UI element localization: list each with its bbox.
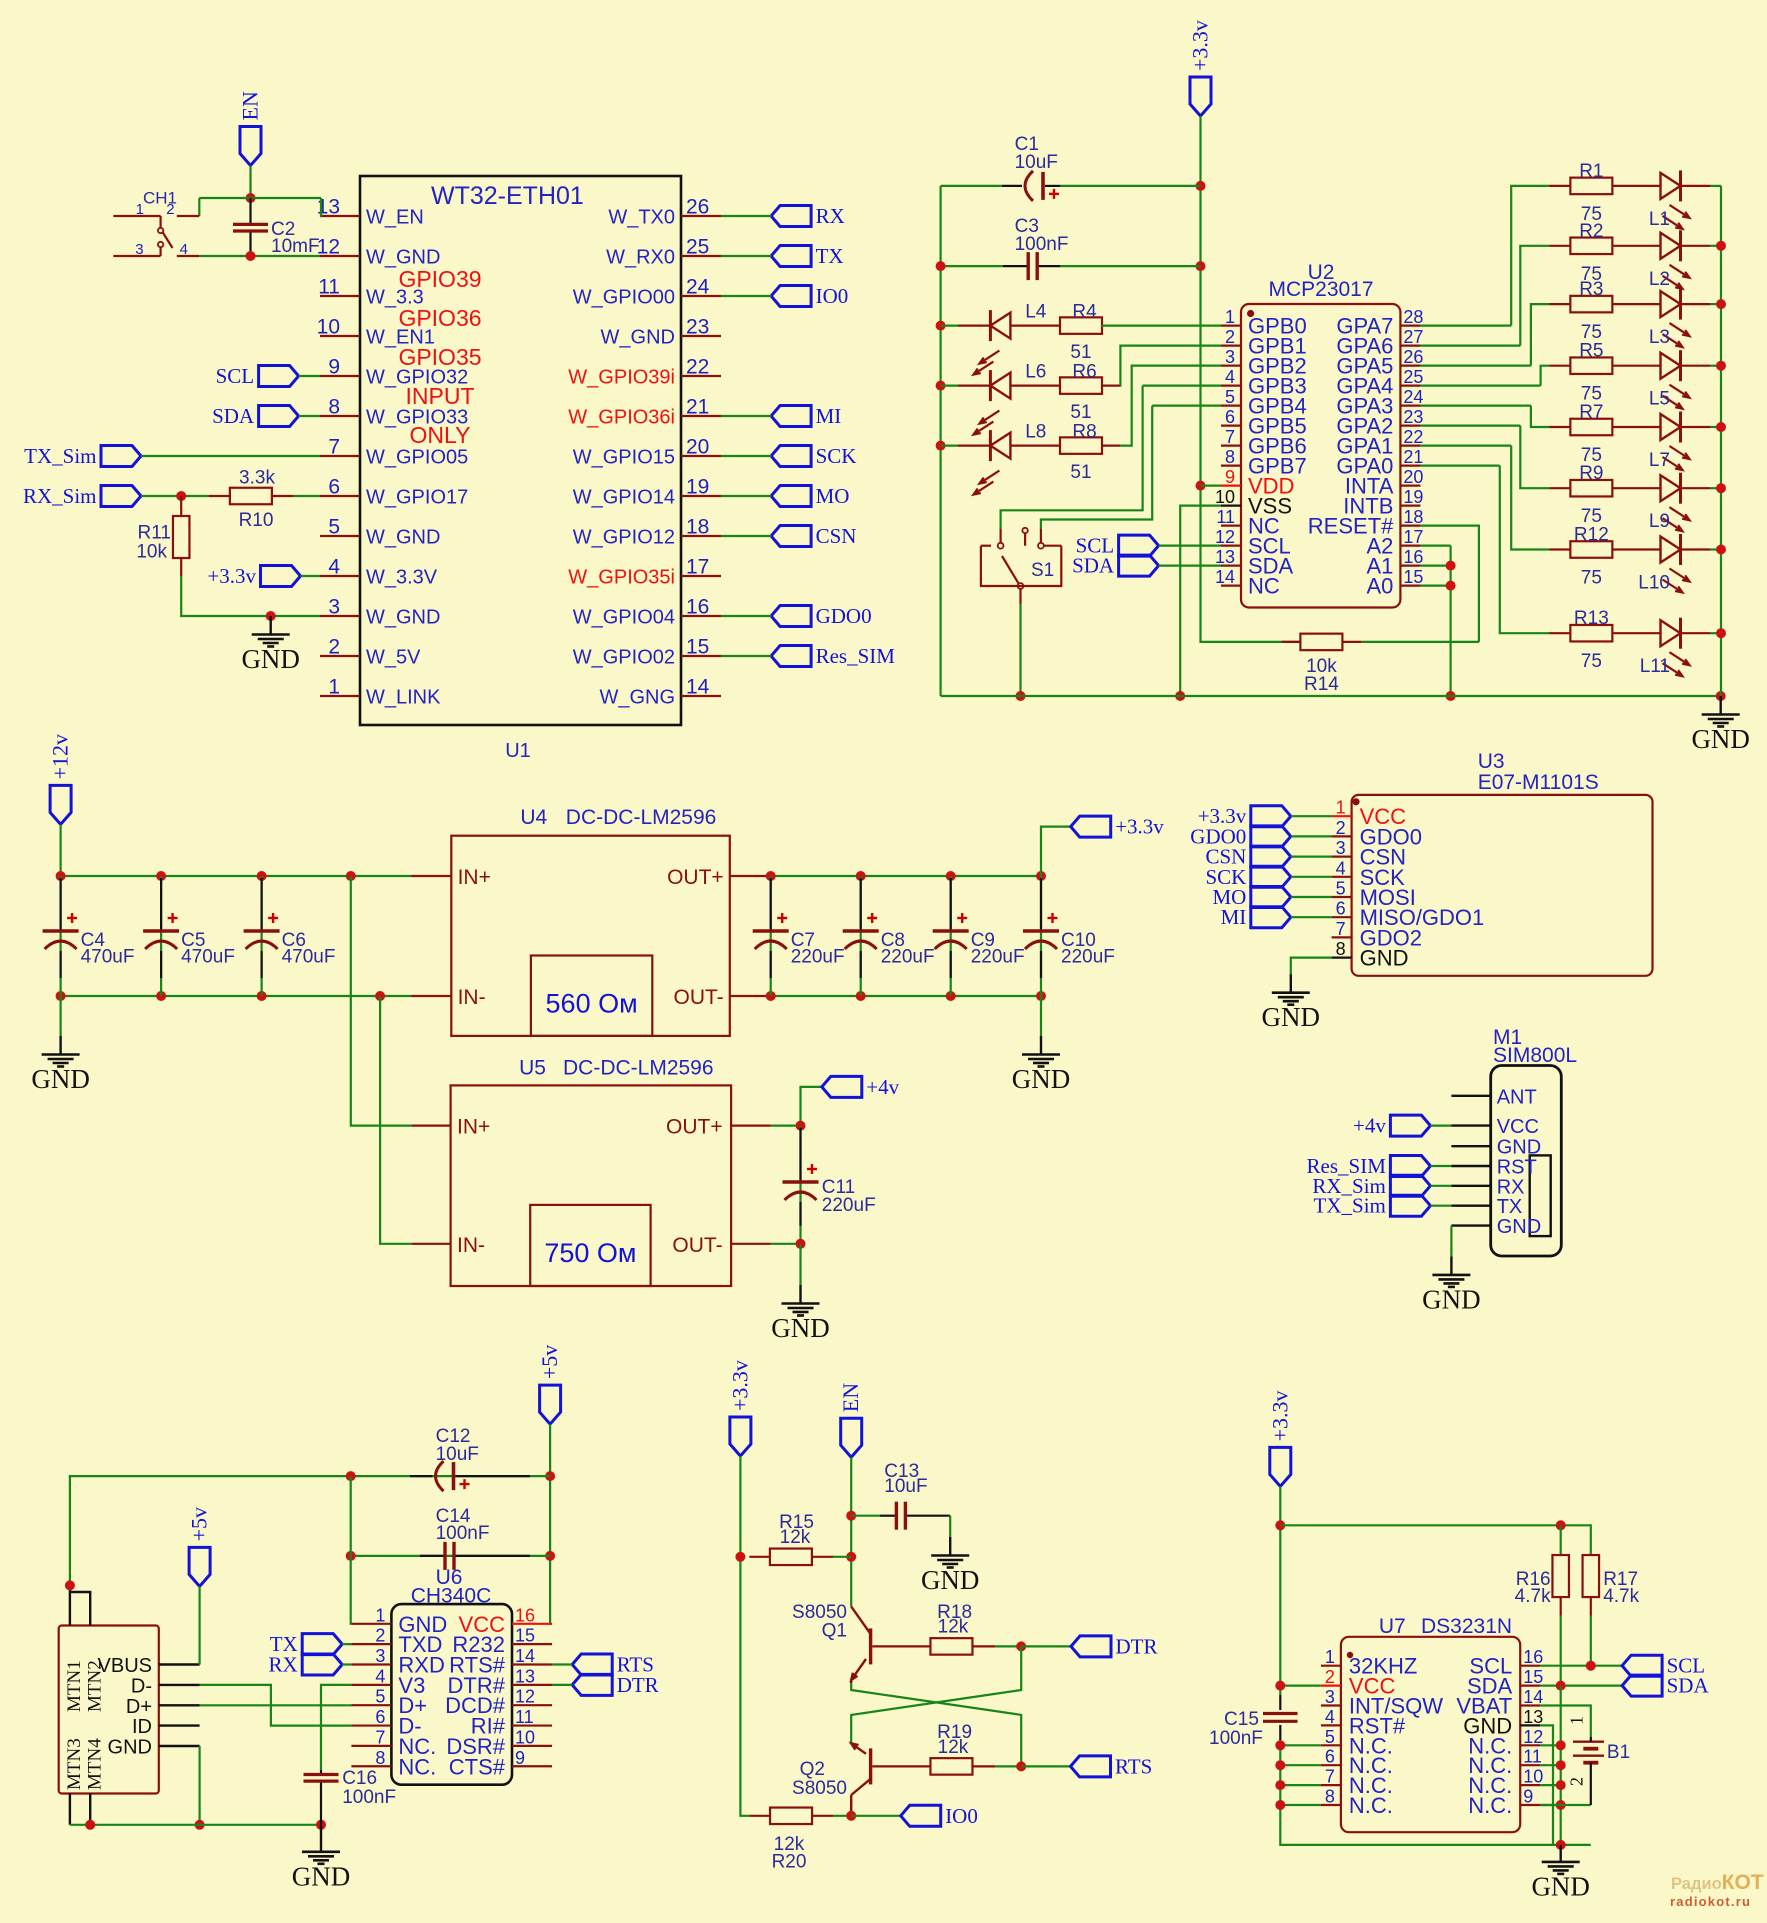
svg-text:9: 9 (1225, 467, 1235, 487)
capacitor C16 100nF (320, 1770, 322, 1774)
svg-text:L2: L2 (1649, 269, 1670, 290)
U1 pin 17 W_GPIO35i (681, 575, 721, 577)
wire right N.C. pin 9 (1540, 1804, 1561, 1806)
node C2 bottom junction (246, 251, 256, 261)
svg-text:7: 7 (375, 1727, 385, 1747)
U4 IN- stub (412, 995, 452, 997)
wire GPA pin to R7 (1420, 405, 1531, 407)
wire VBAT to battery (1540, 1706, 1591, 1738)
wire pin26 to RX (721, 215, 771, 217)
wire VSS to gnd rail (1180, 506, 1221, 696)
flag EN above C2 (240, 127, 261, 166)
wire right N.C. pin 12 (1540, 1744, 1561, 1746)
wire pin19 to MO (721, 495, 771, 497)
wire GPA pin to R2 (1420, 345, 1520, 347)
svg-text:10uF: 10uF (436, 1444, 479, 1465)
wire L1 to gnd rail (1710, 185, 1721, 187)
svg-text:4: 4 (375, 1666, 385, 1686)
svg-text:W_GND: W_GND (601, 327, 675, 349)
wire left gnd rail of LED column (939, 186, 941, 696)
U7 pin 16 SCL (1520, 1665, 1540, 1667)
U7 pin 9 N.C. (1520, 1804, 1540, 1806)
node VDD junction (1196, 481, 1206, 491)
M1 pin ANT (1451, 1095, 1490, 1097)
svg-text:W_GPIO12: W_GPIO12 (573, 527, 675, 549)
svg-text:100nF: 100nF (1209, 1728, 1263, 1749)
svg-text:EN: EN (838, 1383, 863, 1412)
svg-text:OUT+: OUT+ (667, 866, 724, 889)
node right N.C. 11 junction (1556, 1760, 1566, 1770)
U1 pin 26 W_TX0 (681, 215, 721, 217)
wire right N.C. pin 10 (1540, 1784, 1561, 1786)
U1 pin 8 W_GPIO33 (320, 415, 360, 417)
port GDO0 (771, 606, 811, 627)
wire TX to TXD (342, 1643, 351, 1645)
svg-text:7: 7 (328, 436, 340, 459)
flag +5v above C12 (540, 1385, 561, 1424)
wire S1 to gnd rail (1019, 589, 1021, 604)
wire pin16 to GDO0 (721, 615, 771, 617)
wire +3.3v rail down to VDD and R14 (1201, 116, 1301, 642)
wire SCL row to port (1540, 1665, 1622, 1667)
svg-text:17: 17 (686, 556, 709, 579)
U1 pin 22 W_GPIO39i (681, 375, 721, 377)
svg-text:6: 6 (1225, 407, 1235, 427)
capacitor C10 220uF (1040, 876, 1042, 996)
svg-text:10: 10 (1523, 1767, 1543, 1787)
capacitor C12 10uF (410, 1475, 433, 1477)
svg-text:51: 51 (1070, 462, 1091, 483)
svg-text:GND: GND (1262, 1002, 1321, 1032)
svg-text:23: 23 (1403, 407, 1423, 427)
U7 pin 3 INT/SQW (1321, 1704, 1341, 1706)
svg-text:560 Ом: 560 Ом (546, 989, 638, 1019)
svg-text:Res_SIM: Res_SIM (816, 644, 896, 668)
svg-text:GND: GND (241, 644, 300, 674)
svg-text:IN-: IN- (458, 986, 486, 1009)
wire U4 IN- down to U5 IN- (380, 996, 411, 1244)
port RX_Sim at M1 (1390, 1175, 1430, 1196)
U6 pin 16 VCC (512, 1623, 552, 1625)
svg-text:R14: R14 (1304, 674, 1339, 695)
svg-text:OUT+: OUT+ (666, 1116, 723, 1139)
USB pin VBUS (159, 1663, 200, 1665)
USB shell pin MTN1 (69, 1589, 71, 1626)
svg-text:8: 8 (375, 1748, 385, 1768)
svg-text:MTN2: MTN2 (85, 1660, 106, 1712)
svg-text:SCL: SCL (216, 364, 255, 388)
svg-text:IN-: IN- (457, 1234, 485, 1257)
svg-text:75: 75 (1581, 651, 1602, 672)
svg-text:R2: R2 (1579, 221, 1603, 242)
node +5v C12 junction (545, 1471, 555, 1481)
U1 pin 20 W_GPIO15 (681, 455, 721, 457)
node OUT- rail junction (766, 991, 776, 1001)
resistor R1 75 (1549, 185, 1570, 187)
capacitor C4 470uF (59, 876, 61, 996)
ground GND below U5 (799, 1285, 801, 1304)
wire DTR junction to port (1021, 1645, 1071, 1647)
wire pin15 to Res_SIM (721, 655, 771, 657)
node RX_Sim/R10/R11 junction (176, 491, 186, 501)
node IN- rail junction (257, 991, 267, 1001)
svg-text:VCC: VCC (1497, 1116, 1539, 1138)
svg-text:IN+: IN+ (458, 866, 491, 889)
svg-text:11: 11 (515, 1707, 534, 1727)
svg-text:DC-DC-LM2596: DC-DC-LM2596 (566, 806, 717, 829)
svg-text:14: 14 (1523, 1687, 1543, 1707)
node C3 junction right (1196, 261, 1206, 271)
U4 OUT+ stub (730, 875, 770, 877)
svg-text:4: 4 (1325, 1707, 1335, 1727)
U1 pin 5 W_GND (320, 535, 360, 537)
capacitor C8 220uF (860, 876, 862, 996)
svg-text:2: 2 (328, 636, 340, 659)
svg-text:TX: TX (816, 244, 844, 268)
svg-text:+3.3v: +3.3v (207, 564, 256, 588)
U2 pin 1 GPB0 (1221, 325, 1241, 327)
svg-text:L8: L8 (1025, 422, 1046, 443)
svg-text:W_3.3V: W_3.3V (366, 567, 438, 589)
svg-text:W_GNG: W_GNG (599, 687, 675, 709)
svg-text:+12v: +12v (48, 734, 73, 779)
wire L9 to gnd rail (1710, 487, 1721, 489)
wire EN down to Q1 collector (850, 1457, 852, 1606)
node A-pins gnd junction (1446, 691, 1456, 701)
U3 pin 6 MISO/GDO1 (1332, 916, 1352, 918)
regulator module U5 DC-DC-LM2596 body (451, 1085, 731, 1286)
wire +4v to VCC (1430, 1124, 1451, 1126)
svg-text:R12: R12 (1574, 525, 1609, 546)
node C12 left junction (346, 1471, 356, 1481)
U1 pin 1 W_LINK (320, 695, 360, 697)
port SDA at U2 (1119, 555, 1159, 576)
svg-text:RX_Sim: RX_Sim (23, 484, 97, 508)
LED L3 (1612, 303, 1660, 305)
svg-text:L9: L9 (1649, 511, 1670, 532)
resistor R16 4.7k (1560, 1525, 1562, 1555)
node IN- rail junction (56, 991, 66, 1001)
svg-text:TX_Sim: TX_Sim (24, 444, 96, 468)
svg-text:R13: R13 (1574, 608, 1609, 629)
flag +3.3v above U2 (1190, 77, 1211, 116)
U2 pin 24 GPA3 (1400, 405, 1420, 407)
wire GND pin 13 down to rail (1540, 1725, 1553, 1845)
node IN+ rail junction (56, 871, 66, 881)
svg-text:OUT-: OUT- (672, 1234, 722, 1257)
svg-text:MO: MO (816, 484, 850, 508)
USB pin D+ (159, 1704, 200, 1706)
node gnd rail right junction (1716, 691, 1726, 701)
wire R10 to pin6 (293, 495, 320, 497)
resistor R17 4.7k (1583, 1555, 1600, 1597)
USB pin ID (159, 1724, 200, 1726)
capacitor C9 220uF (950, 876, 952, 996)
svg-text:1: 1 (136, 201, 144, 218)
resistor R3 75 (1549, 303, 1570, 305)
wire +3.3v left vertical of U7 (1279, 1486, 1281, 1695)
USB pin GND (159, 1745, 200, 1747)
LED L9 (1612, 487, 1660, 489)
svg-text:W_GND: W_GND (366, 527, 440, 549)
port DTR (1071, 1636, 1111, 1657)
svg-text:R4: R4 (1072, 302, 1097, 323)
U1 pin 14 W_GNG (681, 695, 721, 697)
svg-text:EN: EN (238, 91, 263, 120)
resistor R15 12k (770, 1549, 812, 1566)
port SCL at U7 (1622, 1655, 1662, 1676)
port TX (771, 246, 811, 267)
node C11 top junction (796, 1121, 806, 1131)
capacitor C7 220uF (770, 876, 772, 996)
LED L8 (941, 445, 958, 447)
node IO0 junction (846, 1811, 856, 1821)
svg-text:3: 3 (1336, 838, 1346, 858)
svg-text:MTN4: MTN4 (85, 1738, 106, 1790)
wire left N.C. pin 8 (1280, 1804, 1321, 1806)
svg-text:SDA: SDA (212, 404, 255, 428)
svg-text:3: 3 (375, 1646, 385, 1666)
U4 inner box 560 Om (531, 956, 652, 1036)
resistor R5 75 (1549, 365, 1570, 367)
wire EN net to pin13 (199, 197, 321, 199)
wire GPA pin to R13 (1420, 465, 1499, 467)
wire GPB3 to switch S1 left (1143, 385, 1221, 387)
svg-text:4.7k: 4.7k (1603, 1586, 1639, 1607)
port TX at U6 (302, 1634, 342, 1655)
transistor Q2 S8050 NPN (869, 1748, 872, 1784)
U2 pin 15 A0 (1400, 584, 1420, 586)
U7 pin 7 N.C. (1321, 1784, 1341, 1786)
port RX_Sim (101, 486, 141, 507)
U2 pin 20 INTA (1400, 485, 1420, 487)
svg-text:GND: GND (1422, 1284, 1481, 1314)
svg-text:MI: MI (1221, 905, 1247, 929)
svg-text:R10: R10 (239, 510, 274, 531)
svg-text:470uF: 470uF (282, 947, 336, 968)
svg-text:16: 16 (1523, 1647, 1543, 1667)
node C1 junction right (1196, 181, 1206, 191)
U1 pin 23 W_GND (681, 335, 721, 337)
wire pin20 to SCK (721, 455, 771, 457)
wire GPA pin to R9 (1420, 425, 1520, 427)
wire +3.3v down to R20 (740, 1456, 749, 1816)
svg-text:18: 18 (686, 516, 709, 539)
wire R11 to gnd net (181, 576, 320, 616)
svg-text:19: 19 (1403, 487, 1423, 507)
wire U3 GND pin to ground (1291, 958, 1332, 975)
U7 pin 13 GND (1520, 1724, 1540, 1726)
wire C14 row (351, 1555, 550, 1557)
wire SDA to pin13 (1159, 564, 1221, 566)
U6 pin 9 CTS# (512, 1765, 552, 1767)
svg-text:4: 4 (1225, 367, 1235, 387)
svg-text:26: 26 (686, 196, 709, 219)
svg-text:U4: U4 (520, 806, 547, 829)
switch CH1 (113, 215, 160, 217)
svg-text:L1: L1 (1649, 209, 1670, 230)
svg-text:8: 8 (1325, 1787, 1335, 1807)
svg-text:1: 1 (375, 1605, 385, 1625)
resistor R20 12k (770, 1808, 812, 1825)
U1 pin 4 W_3.3V (320, 575, 360, 577)
U1 pin 12 W_GND (320, 255, 360, 257)
wire M1 GND down (1450, 1226, 1452, 1257)
U2 pin 26 GPA5 (1400, 365, 1420, 367)
U2 pin 7 GPB6 (1221, 445, 1241, 447)
U5 OUT- stub (731, 1243, 771, 1245)
svg-text:470uF: 470uF (81, 947, 135, 968)
node IN+ rail junction (156, 871, 166, 881)
node MTN junction (65, 1580, 75, 1590)
wire SCL to pin9 (299, 375, 320, 377)
svg-text:MI: MI (816, 404, 842, 428)
svg-text:L5: L5 (1649, 389, 1670, 410)
wire L3 to gnd rail (1710, 303, 1721, 305)
svg-text:GND: GND (31, 1064, 90, 1094)
resistor R4 51 (1011, 325, 1061, 327)
wire left N.C. pin 5 (1280, 1744, 1321, 1746)
U3 pin 2 GDO0 (1332, 835, 1352, 837)
resistor R10 3.3k (230, 488, 272, 505)
svg-text:ANT: ANT (1497, 1086, 1537, 1108)
svg-text:Q1: Q1 (822, 1621, 847, 1642)
svg-text:W_RX0: W_RX0 (606, 247, 675, 269)
U6 pin 2 TXD (351, 1643, 391, 1645)
wire L10 to gnd rail (1710, 548, 1721, 550)
resistor R11 10k (173, 516, 190, 558)
wire IO0 junction to port (851, 1815, 901, 1817)
svg-text:GPIO36: GPIO36 (398, 305, 481, 331)
U1 pin 18 W_GPIO12 (681, 535, 721, 537)
node left rail L8 (936, 441, 946, 451)
node IN+ rail junction (346, 871, 356, 881)
U2 pin 28 GPA7 (1400, 325, 1420, 327)
svg-text:23: 23 (686, 316, 709, 339)
U6 pin 7 NC. (351, 1745, 391, 1747)
wire C13 to ground (949, 1516, 951, 1537)
node C13 junction (846, 1511, 856, 1521)
svg-text:L7: L7 (1649, 450, 1670, 471)
U3 pin 1 VCC (1332, 815, 1352, 817)
U2 pin 5 GPB4 (1221, 405, 1241, 407)
node gnd rail junction (1556, 1840, 1566, 1850)
wire C1 right (1060, 185, 1200, 187)
ground GND below U7 (1559, 1845, 1561, 1862)
port +3.3v at U3 (1251, 806, 1291, 827)
wire U5 OUT+ to +4v (771, 1124, 801, 1126)
svg-text:12k: 12k (780, 1527, 811, 1548)
U7 pin 14 VBAT (1520, 1704, 1540, 1706)
node C16 gnd junction (316, 1820, 326, 1830)
svg-text:E07-M1101S: E07-M1101S (1478, 771, 1599, 794)
U7 pin 1 32KHZ (1321, 1665, 1341, 1667)
svg-text:4: 4 (1336, 858, 1346, 878)
capacitor C15 100nF (1279, 1695, 1281, 1710)
port MO at U3 (1251, 887, 1291, 908)
wire SDA to pin8 (299, 415, 320, 417)
wire C4 to ground (59, 996, 61, 1036)
transistor Q1 S8050 NPN (869, 1628, 872, 1664)
svg-text:22: 22 (1403, 427, 1423, 447)
U5 OUT+ stub (731, 1124, 771, 1126)
svg-text:16: 16 (515, 1605, 535, 1625)
svg-text:15: 15 (1523, 1667, 1543, 1687)
svg-text:NC: NC (1248, 574, 1280, 599)
wire pin24 to IO0 (721, 295, 771, 297)
node right N.C. 12 junction (1556, 1740, 1566, 1750)
resistor R18 12k (872, 1645, 930, 1647)
wire SDA row to port (1540, 1684, 1622, 1686)
U1 pin 7 W_GPIO05 (320, 455, 360, 457)
wire GPA pin to R1 (1420, 325, 1511, 327)
svg-text:W_LINK: W_LINK (366, 687, 441, 709)
svg-text:220uF: 220uF (971, 947, 1025, 968)
svg-text:GND: GND (1497, 1216, 1541, 1238)
wire pin25 to TX (721, 255, 771, 257)
node R16 top junction (1556, 1520, 1566, 1530)
svg-text:220uF: 220uF (791, 947, 845, 968)
wire to ground below C11 (799, 1244, 801, 1285)
svg-text:SDA: SDA (1072, 554, 1115, 578)
svg-text:U3: U3 (1478, 750, 1505, 773)
node left rail C3 (936, 261, 946, 271)
port IO0 (771, 286, 811, 307)
svg-text:100nF: 100nF (436, 1523, 490, 1544)
svg-text:1: 1 (1567, 1716, 1587, 1725)
LED L11 (1612, 632, 1660, 634)
wire right N.C. bus (1560, 1686, 1562, 1845)
M1 pin RST (1451, 1165, 1490, 1167)
svg-text:+3.3v: +3.3v (1115, 815, 1164, 839)
wire A2 A1 A0 to gnd rail (1420, 544, 1450, 546)
svg-text:25: 25 (1403, 367, 1423, 387)
wire L5 to gnd rail (1710, 365, 1721, 367)
wire R14 to RESET# (1362, 641, 1479, 643)
wire left N.C. pin 7 (1280, 1784, 1321, 1786)
port RTS (1071, 1756, 1111, 1777)
svg-text:SCK: SCK (816, 444, 857, 468)
LED L10 (1612, 548, 1660, 550)
ground GND below U3 (1290, 974, 1292, 993)
wire L11 to gnd rail (1710, 632, 1721, 634)
node L11 gnd junction (1716, 628, 1726, 638)
wire GPA pin to R3 (1420, 365, 1531, 367)
svg-text:15: 15 (515, 1626, 535, 1646)
svg-text:R8: R8 (1072, 422, 1096, 443)
ground GND below LED column (1719, 696, 1721, 715)
svg-text:GPIO35: GPIO35 (398, 344, 481, 370)
svg-text:D+: D+ (126, 1696, 152, 1718)
wire SCK to U3 pin 4 (1291, 876, 1332, 878)
node C14 left junction (346, 1551, 356, 1561)
wire CSN to U3 pin 3 (1291, 855, 1332, 857)
svg-text:5: 5 (375, 1687, 385, 1707)
svg-text:3: 3 (1325, 1687, 1335, 1707)
U2 pin 2 GPB1 (1221, 345, 1241, 347)
svg-text:470uF: 470uF (181, 947, 235, 968)
U1 pin 9 W_GPIO32 (320, 375, 360, 377)
wire gnd row CH1 to pin12 (199, 255, 320, 257)
svg-text:220uF: 220uF (881, 947, 935, 968)
svg-text:RTS: RTS (1115, 1754, 1152, 1778)
node IN- rail junction (375, 991, 385, 1001)
svg-text:L10: L10 (1638, 573, 1670, 594)
wire pin2 of CH1 up (198, 198, 200, 216)
svg-text:VBUS: VBUS (98, 1655, 152, 1677)
svg-text:2: 2 (1325, 1667, 1335, 1687)
svg-text:5: 5 (1325, 1727, 1335, 1747)
